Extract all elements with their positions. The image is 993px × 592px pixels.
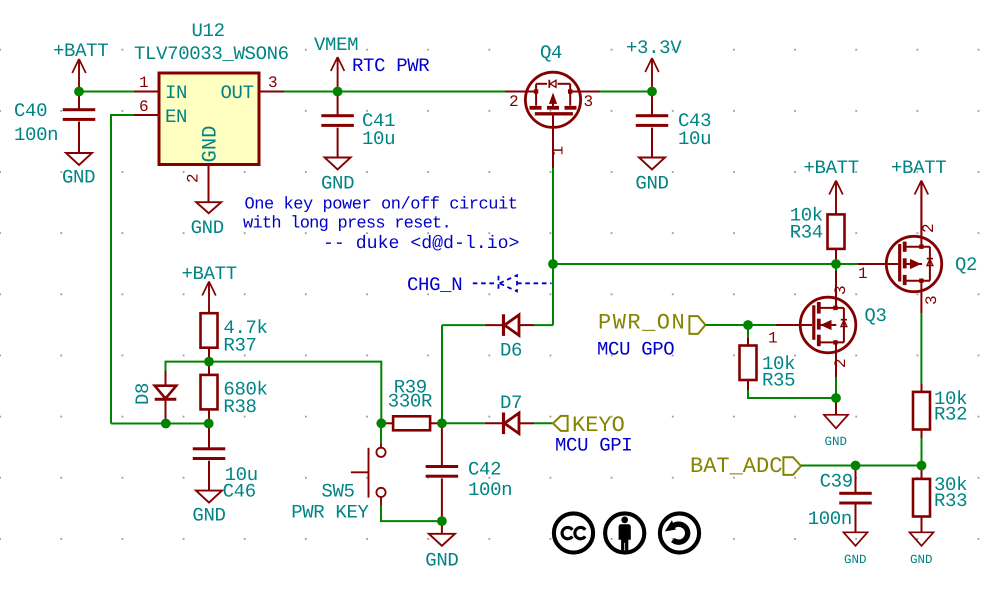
svg-text:EN: EN [165,106,187,128]
svg-text:6: 6 [139,98,149,116]
svg-text:GND: GND [321,173,354,195]
svg-text:2: 2 [832,358,850,368]
svg-text:SW5: SW5 [321,481,354,503]
hierarchical label BAT_ADC [690,454,801,479]
diode D8 [132,371,176,424]
svg-text:R34: R34 [790,222,823,244]
svg-text:+3.3V: +3.3V [626,37,682,59]
pin 3 label of Q2 [923,295,941,305]
pin 1 label of Q4 [550,146,568,156]
svg-text:GND: GND [62,167,95,189]
junction node +3.3V [647,87,657,97]
junction node R37/R38 [204,357,214,367]
resistor R33 [913,466,967,533]
svg-text:3: 3 [268,74,278,92]
svg-text:GND: GND [844,553,867,567]
svg-text:PWR_ON: PWR_ON [598,311,686,336]
resistor R34 [790,205,845,265]
svg-text:3: 3 [923,295,941,305]
net label MCU GPI [555,435,632,457]
transistor Q2 (P-MOSFET) [886,236,977,291]
svg-text:R32: R32 [934,404,967,426]
pin 1 IN of U12 [134,74,187,104]
icon BY (attribution person) [605,513,644,552]
svg-text:BAT_ADC: BAT_ADC [690,454,782,479]
pin 1 wire of Q3 [768,325,800,348]
junction node D8 cathode [161,419,171,429]
junction node R34/Q3/main rail [831,259,841,269]
junction node C42/SW5 ground [437,516,447,526]
svg-text:C42: C42 [468,459,501,481]
wire main node down to D6 [552,264,554,325]
svg-text:with long press reset.: with long press reset. [243,215,451,234]
resistor R35 [740,325,796,392]
svg-text:OUT: OUT [221,82,254,104]
capacitor C43 [636,92,711,158]
wire Q4 pin1 down to main node [552,127,554,264]
svg-text:1: 1 [768,330,778,348]
ground GND below U12 pin 2 [191,202,224,239]
svg-text:+BATT: +BATT [53,40,108,62]
junction node R39 right / C42 / D7 [437,418,447,428]
wire SW5 bottom to GND node [381,505,442,521]
svg-text:GND: GND [191,217,224,239]
capacitor C39 [808,466,872,533]
transistor Q3 (P-MOSFET) [800,297,886,353]
svg-text:+BATT: +BATT [804,157,859,179]
svg-text:GND: GND [425,550,458,572]
wire Q2 drain to +BATT [920,181,922,236]
capacitor C41 [321,92,395,158]
net label RTC PWR [352,55,429,77]
svg-text:GND: GND [200,126,223,163]
svg-text:100n: 100n [468,479,512,501]
ground GND below C42 [425,521,458,571]
icon CC (Creative Commons) [554,513,593,552]
wire EN to lower-left net [111,115,134,424]
junction node C40/+BATT [74,87,84,97]
junction node main (Q4 source net) [548,259,558,269]
ground GND below R33 [910,532,934,567]
ground GND below C43 [635,158,668,195]
diode D6 [442,314,553,361]
wire main node to Q2 gate [836,263,858,265]
svg-text:R37: R37 [223,335,256,357]
pin 1 wire of Q2 [858,264,886,283]
svg-text:IN: IN [165,82,187,104]
power symbol +3.3V [626,37,682,92]
wire Q3 drain to main node [835,264,837,308]
svg-text:U12: U12 [192,20,225,42]
IC U12 TLV70033_WSON6 regulator body [134,20,289,165]
pin 2 GND of U12 [185,126,223,203]
svg-text:10u: 10u [678,128,711,150]
junction node R39 left / SW5 [376,418,386,428]
icon SA (share-alike) [660,513,699,552]
junction node R38 bottom [204,419,214,429]
svg-text:Q4: Q4 [540,42,562,64]
resistor R39 [381,377,442,431]
junction node C39 top [851,461,861,471]
capacitor C42 [426,423,513,521]
net label CHG_N with dashed diode (no-connect) [407,274,552,296]
svg-text:C39: C39 [820,471,853,493]
junction node VMEM [333,87,343,97]
wire R37 bottom to junction [208,348,210,362]
transistor Q4 (P-MOSFET) [505,42,600,127]
junction node R32/R33/BAT_ADC [917,461,927,471]
wire Q4 pin3 to +3.3V node [600,91,652,93]
pin 2 label of Q3 [832,358,850,368]
svg-text:RTC PWR: RTC PWR [352,55,429,77]
net label MCU GPO [597,339,674,361]
svg-text:D7: D7 [500,392,522,414]
svg-text:Q3: Q3 [864,305,886,327]
pin 6 EN of U12 [134,98,187,128]
capacitor C40 [14,92,95,154]
svg-text:-- duke <d@d-l.io>: -- duke <d@d-l.io> [323,234,519,254]
svg-text:MCU GPI: MCU GPI [555,435,632,457]
svg-text:C46: C46 [223,481,256,503]
svg-text:CHG_N: CHG_N [407,274,462,296]
wire Q3 source down [835,342,837,398]
power symbol +BATT (top left) [53,40,108,92]
svg-text:330R: 330R [388,391,432,413]
svg-text:10u: 10u [362,128,395,150]
svg-text:R38: R38 [223,396,256,418]
pin 3 label of Q4 [584,93,594,111]
svg-text:Q2: Q2 [955,254,977,276]
ground GND below C40 [62,153,95,189]
svg-text:GND: GND [635,173,668,195]
capacitor C46 [193,424,258,503]
power symbol +BATT (middle) [182,263,237,313]
svg-text:100n: 100n [808,508,852,530]
svg-text:+BATT: +BATT [891,157,946,179]
svg-text:GND: GND [825,435,848,449]
svg-text:C40: C40 [14,100,47,122]
hierarchical label KEY0 [553,413,625,438]
text note: circuit description [243,196,519,255]
power symbol +BATT (above Q2) [891,157,946,236]
junction node PWR_ON/R35 [743,320,753,330]
ground GND below C39 [844,532,868,567]
svg-text:R35: R35 [762,370,795,392]
junction node Q3 source/R35 [831,393,841,403]
svg-text:3: 3 [584,93,594,111]
power symbol +BATT (above R34) [804,157,859,214]
wire BAT_ADC to R32/R33 [801,465,922,467]
wire R32 to BAT_ADC node [921,438,923,466]
svg-text:GND: GND [192,505,225,527]
power symbol VMEM [314,34,358,92]
svg-text:1: 1 [139,74,149,92]
svg-text:PWR KEY: PWR KEY [291,502,369,524]
pin 2 label of Q4 [509,93,519,111]
wire EN-net horizontal [111,423,209,425]
pin 2 label of Q2 [920,223,938,233]
wire R37/R38 node to D8 anode [166,362,209,371]
wire D6 to R39 node (vertical) [441,325,443,423]
svg-text:3: 3 [832,285,850,295]
wire PWR_ON to Q3 gate [705,324,776,326]
svg-text:R33: R33 [934,490,967,512]
pin 3 OUT of U12 [221,74,285,104]
diode D7 [442,392,554,434]
wire R37/R38 node to R39 node [209,362,381,424]
wire R35 bottom to Q3 source node [748,390,836,398]
svg-text:D6: D6 [500,340,522,362]
svg-text:One key power on/off circuit: One key power on/off circuit [245,196,518,215]
svg-text:2: 2 [185,173,203,183]
resistor R32 [913,384,967,438]
svg-text:2: 2 [509,93,519,111]
wire main rail to R34/Q3 node [553,263,836,265]
ground GND below C46 [192,491,225,527]
svg-text:1: 1 [858,265,868,283]
resistor R38 [201,362,268,424]
svg-text:GND: GND [910,553,933,567]
svg-text:MCU GPO: MCU GPO [597,339,674,361]
ground GND below Q3 source [824,398,848,449]
svg-text:2: 2 [920,223,938,233]
svg-text:VMEM: VMEM [314,34,358,56]
resistor R37 [201,313,268,356]
svg-text:D8: D8 [132,383,154,405]
svg-text:TLV70033_WSON6: TLV70033_WSON6 [134,43,289,65]
wire Q2 source to R32 [920,292,922,384]
wire +BATT node to U12 IN [79,91,134,93]
ground GND below C41 [321,158,354,195]
wire U12 OUT to VMEM node [284,91,505,93]
pin 3 label of Q3 [832,285,850,295]
switch SW5 (PWR KEY) [291,423,385,523]
svg-text:100n: 100n [14,124,58,146]
hierarchical label PWR_ON [598,311,705,336]
